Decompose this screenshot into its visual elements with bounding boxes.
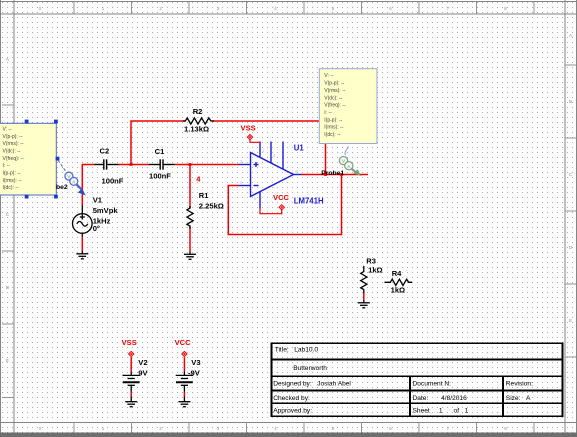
VCC label at op-amp (273, 193, 290, 202)
svg-text:R1: R1 (199, 191, 209, 200)
resistor R1 (187, 206, 193, 229)
VSS power symbol at op-amp (247, 135, 260, 143)
svg-text:C: C (569, 172, 572, 177)
svg-text:I(rms): --: I(rms): -- (3, 178, 22, 184)
selection handles on Probe2 box (25, 120, 60, 199)
svg-text:A: A (6, 57, 9, 62)
svg-text:E: E (569, 318, 572, 323)
ground at R1 (184, 252, 196, 260)
wire R1 branch down (189, 165, 191, 209)
VSS label at V2 (122, 338, 137, 347)
svg-text:I(p-p): --: I(p-p): -- (3, 171, 21, 177)
svg-text:Approved by:: Approved by: (273, 408, 312, 415)
svg-text:V(p-p): --: V(p-p): -- (324, 81, 344, 87)
svg-text:I(p-p): --: I(p-p): -- (324, 117, 342, 123)
svg-text:-9V: -9V (188, 368, 201, 377)
node 4 label (196, 174, 201, 183)
wire R3 to ground (363, 294, 365, 301)
title block (272, 343, 563, 416)
svg-text:Designed by: Josiah Abel: Designed by: Josiah Abel (273, 381, 351, 388)
op-amp U1 labels (294, 143, 324, 205)
VCC power symbol at V3 (182, 351, 187, 356)
svg-text:Size: A: Size: A (506, 395, 531, 402)
svg-text:V(freq): --: V(freq): -- (3, 156, 25, 162)
svg-text:C2: C2 (100, 147, 110, 156)
capacitor C2 (94, 159, 118, 169)
op-amp U1 (239, 142, 302, 209)
op-amp U1 pin numbers (240, 148, 299, 201)
VCC power symbol at op-amp (260, 205, 284, 214)
svg-text:2.25kΩ: 2.25kΩ (199, 202, 224, 211)
svg-text:Sheet 1 of 1: Sheet 1 of 1 (413, 408, 469, 415)
svg-text:R2: R2 (193, 107, 203, 116)
wire VSS to V2 (130, 357, 132, 371)
wire op-amp output (302, 174, 369, 176)
svg-text:I(rms): --: I(rms): -- (324, 125, 343, 131)
resistor R4 (385, 279, 413, 285)
svg-text:1.13kΩ: 1.13kΩ (184, 125, 209, 134)
svg-text:Revision:: Revision: (506, 381, 533, 388)
wire V3 to ground (183, 392, 185, 397)
resistor R2 labels (184, 107, 209, 134)
svg-text:100nF: 100nF (149, 172, 171, 181)
resistor R4 labels (391, 269, 406, 295)
wire C2 to C1 (119, 164, 149, 166)
svg-text:100nF: 100nF (102, 177, 124, 186)
wire R2 branch up from node between C2 and C1 (131, 121, 185, 165)
svg-text:B: B (569, 99, 572, 104)
probe readout box Probe1 (319, 69, 377, 144)
capacitor C2 labels (100, 147, 124, 186)
junction node 4 at R1 (189, 163, 192, 166)
svg-text:I(dc): --: I(dc): -- (3, 185, 19, 191)
junction output and R2 (324, 173, 327, 176)
svg-text:A: A (569, 33, 572, 38)
VCC label at V3 (175, 338, 192, 347)
svg-text:I: --: I: -- (324, 110, 332, 116)
wire V2 to ground (130, 392, 132, 397)
wire R2 to output node (212, 121, 326, 175)
source V1 labels (93, 195, 119, 233)
svg-text:VSS: VSS (241, 123, 256, 132)
svg-text:VCC: VCC (273, 193, 290, 202)
svg-text:V3: V3 (191, 358, 200, 367)
wire feedback loop output to - input (228, 175, 341, 235)
title block text (273, 347, 533, 415)
svg-text:V: --: V: -- (3, 126, 13, 132)
svg-text:D: D (6, 285, 9, 290)
svg-text:V(dc): --: V(dc): -- (324, 95, 342, 101)
svg-text:1kΩ: 1kΩ (391, 286, 406, 295)
svg-text:V: --: V: -- (324, 73, 334, 79)
capacitor C1 (149, 159, 175, 169)
svg-text:R3: R3 (366, 257, 376, 266)
svg-text:V(rms): --: V(rms): -- (324, 88, 345, 94)
probe readout box Probe1 text (324, 73, 346, 138)
battery V2 labels (138, 358, 148, 377)
VSS label at op-amp (241, 123, 256, 132)
ground at V2 (125, 397, 137, 407)
svg-text:0°: 0° (93, 224, 100, 233)
probe Probe1 label (321, 170, 344, 177)
resistor R2 (183, 118, 214, 124)
ground at V1 (76, 251, 88, 259)
svg-text:V(dc): --: V(dc): -- (3, 149, 21, 155)
svg-text:Document N:: Document N: (413, 381, 452, 388)
capacitor C1 labels (149, 147, 171, 181)
battery V2 (123, 371, 140, 392)
probe Probe1 leader line (345, 146, 348, 155)
battery V3 (176, 371, 193, 392)
svg-text:5mVpk: 5mVpk (93, 206, 119, 215)
probe Probe1 icon (339, 157, 361, 177)
svg-text:V(freq): --: V(freq): -- (324, 103, 346, 109)
svg-text:Probe1: Probe1 (321, 170, 344, 177)
junction output and feedback (340, 173, 343, 176)
junction node between C2 and C1 (130, 163, 133, 166)
svg-text:C1: C1 (155, 147, 165, 156)
wire R1 to ground (189, 227, 191, 252)
svg-text:R4: R4 (392, 269, 402, 278)
svg-text:V(p-p): --: V(p-p): -- (3, 134, 23, 140)
svg-text:I: --: I: -- (3, 163, 11, 169)
resistor R3 labels (366, 257, 382, 275)
svg-text:Date: 4/8/2016: Date: 4/8/2016 (413, 395, 468, 402)
probe readout box Probe2 text (3, 126, 25, 191)
resistor R3 (361, 266, 367, 294)
AC source V1 (73, 206, 93, 237)
svg-text:Title: Lab10.0: Title: Lab10.0 (275, 347, 319, 354)
svg-text:VSS: VSS (122, 338, 137, 347)
probe Probe2 leader line (58, 160, 67, 173)
wire V1 to input node (82, 165, 94, 206)
svg-text:VCC: VCC (175, 338, 192, 347)
svg-text:Butterworth: Butterworth (293, 365, 327, 372)
svg-text:1kΩ: 1kΩ (368, 266, 383, 275)
wire VCC to V3 (183, 357, 185, 371)
ground at R3 (358, 300, 370, 308)
svg-text:U1: U1 (294, 143, 305, 152)
ground at V3 (178, 397, 190, 407)
svg-text:be2: be2 (56, 184, 68, 191)
VSS power symbol at V2 (129, 351, 134, 356)
probe Probe2 icon (65, 172, 86, 195)
probe Probe2 label (56, 184, 68, 191)
svg-text:LM741H: LM741H (294, 197, 324, 206)
svg-text:D: D (569, 245, 572, 250)
svg-text:Checked by:: Checked by: (273, 395, 310, 402)
svg-text:V(rms): --: V(rms): -- (3, 141, 24, 147)
wire C1 to op-amp + input (175, 164, 239, 166)
battery V3 labels (188, 358, 201, 377)
resistor R1 labels (199, 191, 224, 211)
probe readout box Probe2 (selected) (0, 123, 56, 195)
svg-text:V1: V1 (93, 195, 103, 204)
svg-text:E: E (6, 358, 9, 363)
svg-text:V2: V2 (138, 358, 147, 367)
wire V1 to ground (81, 237, 83, 252)
svg-text:C: C (6, 212, 9, 217)
svg-text:I(dc): --: I(dc): -- (324, 132, 340, 138)
svg-text:9V: 9V (138, 368, 148, 377)
